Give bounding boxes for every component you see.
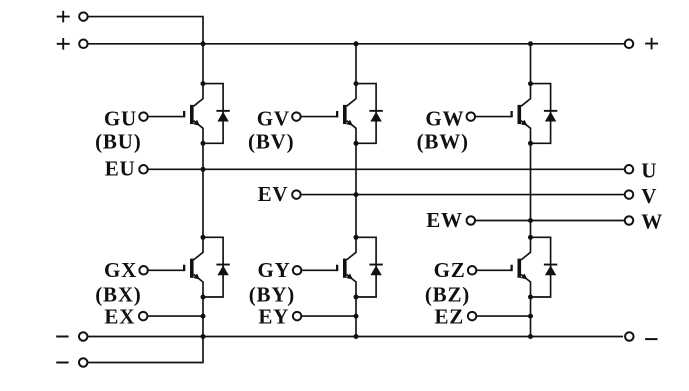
terminal GX gate [139, 266, 148, 275]
junction GX collector node [201, 235, 206, 240]
svg-text:EW: EW [426, 208, 463, 232]
terminal +P (right) [625, 38, 658, 50]
junction EX node [201, 314, 206, 319]
junction U output node [201, 167, 206, 172]
wire -N2 bottom stub rail [87, 337, 203, 363]
wire U leg upper (P bus to collector) [202, 44, 204, 84]
terminal -N1 (left) [56, 332, 87, 341]
svg-text:EU: EU [105, 157, 136, 181]
junction W output node [528, 218, 533, 223]
terminal +P1 (top left) [57, 11, 88, 23]
wire V leg upper (P bus to collector) [355, 44, 357, 84]
junction N bus / W leg [528, 334, 533, 339]
svg-text:EX: EX [104, 304, 135, 328]
junction P bus / V leg [354, 41, 359, 46]
junction GW emitter node [528, 141, 533, 146]
wire GW gate lead [475, 116, 512, 118]
svg-text:(BX): (BX) [95, 283, 141, 307]
terminal V (right) [625, 190, 634, 199]
junction GY emitter node [354, 295, 359, 300]
transistor GW (BW) upper IGBT [511, 84, 531, 144]
junction GV collector node [354, 81, 359, 86]
svg-text:(BU): (BU) [95, 130, 141, 154]
wire GX gate lead [148, 269, 185, 271]
junction GZ emitter node [528, 295, 533, 300]
junction N bus / U leg [201, 334, 206, 339]
svg-text:W: W [641, 210, 663, 234]
wire GY gate lead [301, 269, 337, 271]
junction EZ node [528, 314, 533, 319]
wire EX lead [147, 315, 203, 317]
svg-text:EY: EY [258, 304, 289, 328]
wire P bus (+) [88, 43, 625, 45]
wire EV-V output rail [301, 194, 625, 196]
wire EZ lead [476, 315, 530, 317]
wire V leg lower (emitter to N bus) [355, 297, 357, 337]
terminal EX [139, 312, 148, 321]
terminal EZ [468, 312, 477, 321]
svg-text:GW: GW [425, 106, 464, 130]
wire GZ gate lead [476, 269, 512, 271]
wire U mid leg (emitter to output rail) [202, 143, 204, 237]
diode DV upper freewheel [356, 84, 383, 144]
terminal GY gate [293, 266, 302, 275]
transistor GZ (BZ) lower IGBT [511, 237, 531, 297]
wire W leg lower (emitter to N bus) [530, 297, 532, 337]
junction GU emitter node [201, 141, 206, 146]
svg-text:EV: EV [258, 182, 289, 206]
svg-text:(BZ): (BZ) [425, 283, 470, 307]
transistor GV (BV) upper IGBT [336, 84, 356, 144]
diode DX lower freewheel [203, 237, 230, 297]
junction EY node [354, 314, 359, 319]
svg-text:U: U [641, 159, 657, 183]
wire EY lead [301, 315, 356, 317]
junction GZ collector node [528, 235, 533, 240]
wire U leg lower (emitter to N bus) [202, 297, 204, 337]
terminal EY [293, 312, 302, 321]
wire W leg upper (P bus to collector) [530, 44, 532, 84]
svg-text:GZ: GZ [434, 258, 466, 282]
terminal +P2 (left) [57, 38, 88, 50]
diode DY lower freewheel [356, 237, 383, 297]
wire EW-W output rail [475, 220, 625, 222]
terminal U (right) [625, 165, 634, 174]
junction P bus / U leg [201, 41, 206, 46]
terminal -N (right) [625, 332, 657, 341]
terminal EW [467, 216, 476, 225]
svg-text:(BY): (BY) [249, 283, 295, 307]
transistor GX (BX) lower IGBT [183, 237, 203, 297]
terminal -N2 (bottom left) [56, 358, 87, 367]
diode DU upper freewheel [203, 84, 230, 144]
wire N bus (-) [87, 336, 623, 338]
terminal GW gate [467, 112, 476, 121]
terminal EV [292, 190, 301, 199]
wire GU gate lead [148, 116, 185, 118]
svg-text:GV: GV [257, 106, 290, 130]
terminal GZ gate [468, 266, 477, 275]
wire EU-U output rail [148, 168, 625, 170]
wire GV gate lead [301, 116, 338, 118]
junction GW collector node [528, 81, 533, 86]
svg-text:GX: GX [104, 258, 137, 282]
svg-text:(BW): (BW) [417, 130, 469, 154]
wire V mid leg (emitter to output rail) [355, 143, 357, 237]
svg-text:GY: GY [257, 258, 290, 282]
svg-text:(BV): (BV) [248, 130, 294, 154]
transistor GY (BY) lower IGBT [336, 237, 356, 297]
terminal GV gate [292, 112, 301, 121]
junction GX emitter node [201, 295, 206, 300]
terminal EU [139, 165, 148, 174]
svg-text:V: V [641, 184, 657, 208]
transistor GU (BU) upper IGBT [183, 84, 203, 144]
terminal GU gate [139, 112, 148, 121]
wire W mid leg (emitter to output rail) [530, 143, 532, 237]
svg-text:EZ: EZ [434, 304, 464, 328]
junction GV emitter node [354, 141, 359, 146]
junction P bus / W leg [528, 41, 533, 46]
junction V output node [354, 192, 359, 197]
wire +P1 top stub rail [88, 17, 203, 44]
junction N bus / V leg [354, 334, 359, 339]
junction GU collector node [201, 81, 206, 86]
terminal W (right) [625, 216, 634, 225]
svg-text:GU: GU [104, 106, 137, 130]
diode DW upper freewheel [531, 84, 558, 144]
junction GY collector node [354, 235, 359, 240]
diode DZ lower freewheel [531, 237, 558, 297]
